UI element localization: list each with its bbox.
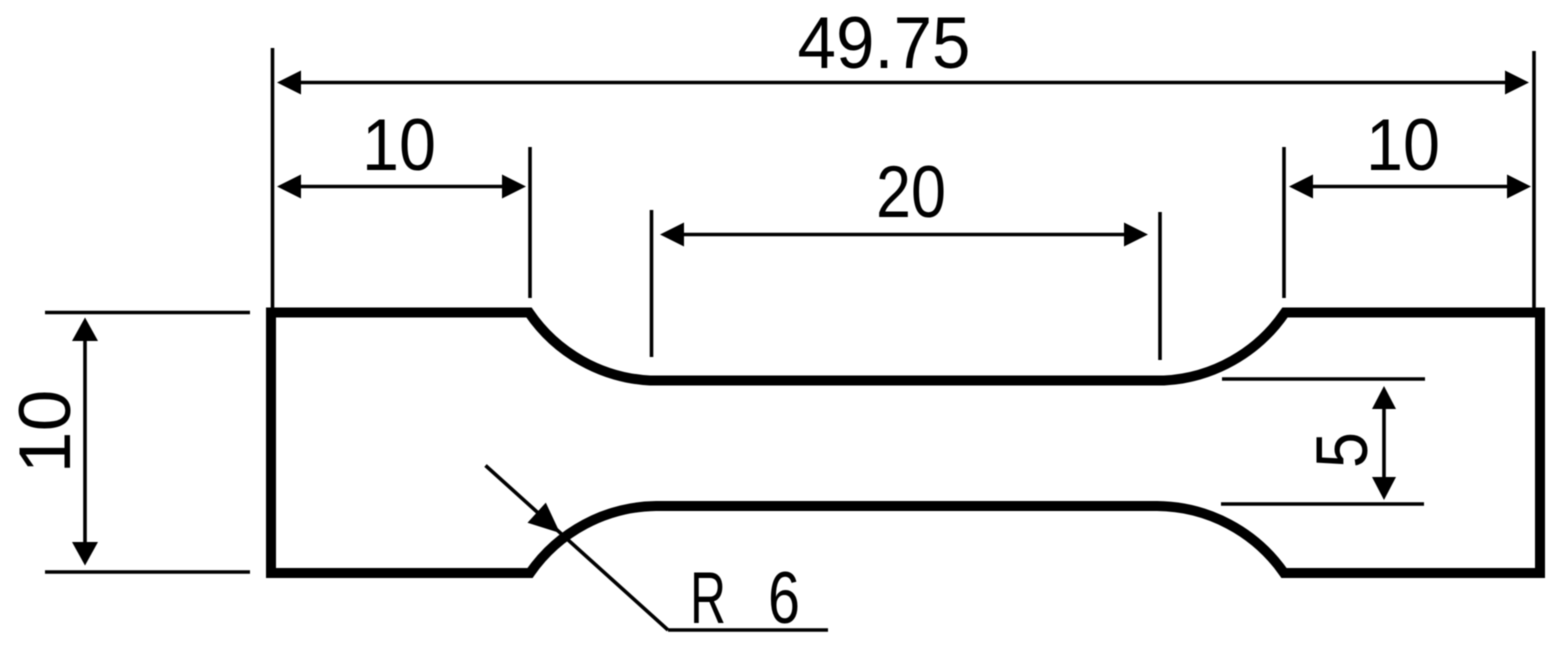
dimension 49.75: dimension line <box>290 81 1518 85</box>
dimension 20: right arrowhead <box>1124 223 1148 247</box>
dimension 20: dimension line <box>673 233 1135 237</box>
dimension 20: extension line left <box>650 210 654 357</box>
dimension 5 right vertical: down arrowhead <box>1372 477 1396 500</box>
dimension 10 left vertical: bottom tick <box>45 570 250 574</box>
dimension 10 top-left: right arrowhead <box>502 175 526 199</box>
dimension 5 right vertical: up arrowhead <box>1372 386 1396 409</box>
dimension 5 right vertical: bottom tick <box>1221 502 1424 506</box>
dimension 20: extension line right <box>1158 212 1162 360</box>
dimension 10 top-left: left arrowhead <box>277 175 301 199</box>
dimension 10 top-left: extension line right <box>528 147 532 298</box>
svg-text:5: 5 <box>1302 432 1383 468</box>
dimension 10 left vertical: up arrowhead <box>72 318 98 342</box>
svg-text:6: 6 <box>768 558 800 639</box>
svg-text:20: 20 <box>876 152 946 233</box>
dimension 49.75: extension line right (shared with right 10) <box>1532 51 1536 310</box>
dimension 10 top-right: left arrowhead <box>1289 175 1313 199</box>
dimension 10 top-right: dimension line <box>1302 185 1518 189</box>
svg-text:R: R <box>690 558 726 639</box>
dimension 10 left vertical: top tick <box>45 311 250 315</box>
dimension 49.75: right arrowhead <box>1505 71 1529 95</box>
radius R6 leader arrowhead <box>528 503 561 533</box>
svg-text:10: 10 <box>362 105 436 186</box>
specimen outline (dog-bone tensile specimen) <box>271 313 1540 574</box>
dimension 10 top-right: extension line left <box>1282 147 1286 298</box>
svg-text:10: 10 <box>1366 105 1440 186</box>
radius R6 leader line diagonal <box>486 466 669 631</box>
dimension 5 right vertical: dimension line <box>1382 406 1386 478</box>
dimension 10 top-left: dimension line <box>290 185 512 189</box>
dimension 10 top-right: right arrowhead <box>1507 175 1531 199</box>
radius R6 leader underline <box>668 628 828 632</box>
dimension 49.75: extension line left <box>271 48 275 310</box>
dimension 5 right vertical: top tick <box>1222 377 1425 381</box>
dimension 20: left arrowhead <box>660 223 684 247</box>
svg-text:49.75: 49.75 <box>798 3 971 84</box>
svg-text:10: 10 <box>5 390 86 474</box>
dimension 49.75: left arrowhead <box>277 71 301 95</box>
dimension 10 left vertical: dimension line <box>83 338 87 543</box>
dimension 10 left vertical: down arrowhead <box>72 542 98 566</box>
